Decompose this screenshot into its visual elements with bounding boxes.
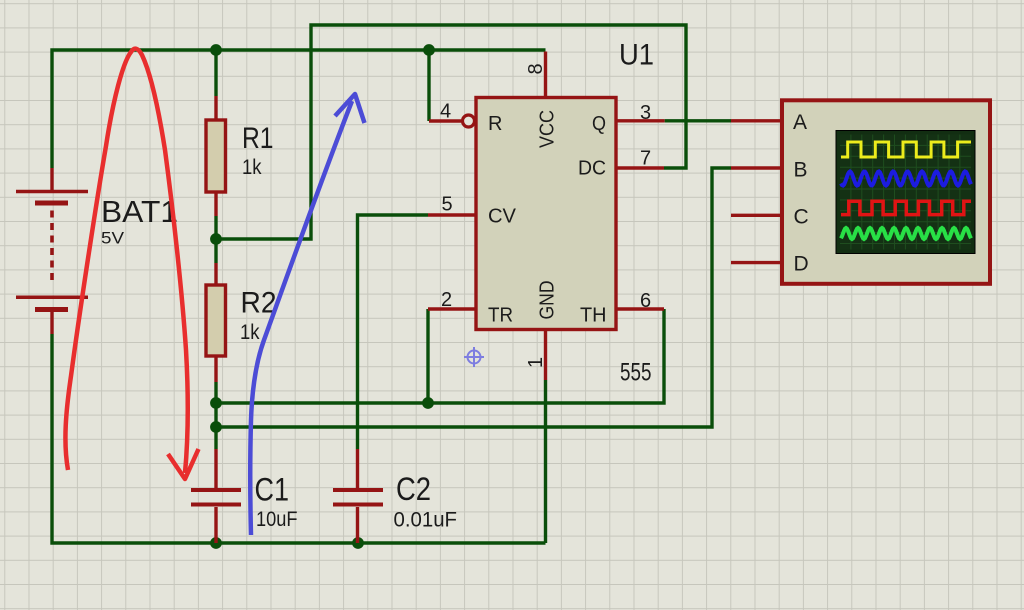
scope B stub	[731, 166, 781, 169]
wire: C1 vertical link between wire1 and plate	[214, 403, 217, 449]
svg-text:B: B	[794, 159, 808, 182]
resistor R1	[214, 96, 217, 216]
svg-text:DC: DC	[578, 158, 606, 180]
pin 4 R stub	[429, 119, 461, 122]
pin 5 CV stub	[428, 213, 476, 216]
pin 3 Q stub	[617, 119, 665, 122]
svg-text:0.01uF: 0.01uF	[394, 509, 458, 532]
annotation red curve	[65, 49, 187, 473]
svg-text:VCC: VCC	[537, 110, 559, 148]
oscilloscope body	[782, 100, 990, 283]
annotation blue arrowhead	[335, 94, 365, 123]
svg-text:3: 3	[640, 102, 651, 124]
svg-text:TH: TH	[580, 304, 607, 326]
scope D stub	[731, 261, 781, 264]
waveform channel C red square	[841, 201, 971, 214]
annotation red arrowhead	[168, 449, 199, 479]
svg-text:4: 4	[440, 101, 451, 123]
svg-text:A: A	[793, 111, 807, 134]
annotation blue curve	[250, 101, 352, 535]
wire: Q to scope A	[665, 119, 731, 122]
svg-text:BAT1: BAT1	[101, 194, 178, 229]
svg-text:6: 6	[640, 290, 651, 312]
junction dot wire2 at C1	[210, 421, 222, 433]
svg-text:5: 5	[442, 194, 453, 216]
junction dot TR on wire1	[422, 397, 434, 409]
scope C stub	[731, 214, 781, 217]
waveform channel B blue sine	[841, 172, 971, 186]
pin 4 inversion bubble	[463, 115, 475, 127]
node marker crosshair	[464, 347, 484, 367]
waveform channel A yellow square	[841, 142, 971, 157]
svg-text:TR: TR	[488, 304, 513, 326]
junction dot bottom rail at C1	[210, 537, 222, 549]
svg-text:CV: CV	[488, 206, 517, 228]
scope screen grid	[840, 135, 971, 250]
svg-text:R1: R1	[242, 122, 274, 155]
wire: R1 bottom lead green	[214, 216, 217, 239]
svg-text:8: 8	[525, 63, 547, 74]
pin 8 VCC stub	[544, 52, 547, 98]
scope screen frame	[836, 131, 975, 254]
pin 1 GND stub	[544, 330, 547, 380]
svg-text:1k: 1k	[240, 321, 260, 344]
wire: VCC top rail from battery to pin8 corner	[52, 50, 546, 168]
svg-text:Q: Q	[592, 113, 606, 135]
svg-text:10uF: 10uF	[256, 508, 298, 531]
svg-text:555: 555	[620, 359, 652, 387]
resistor R2	[214, 263, 217, 382]
wire: pin1 GND lead green	[544, 380, 547, 543]
svg-text:2: 2	[441, 289, 452, 311]
svg-text:GND: GND	[537, 281, 559, 320]
junction dot wire1 at C1	[210, 397, 222, 409]
svg-text:C2: C2	[396, 471, 431, 507]
svg-text:R: R	[488, 113, 502, 135]
op-amp U1 555 timer body	[476, 98, 616, 330]
junction dot on top rail at pin4 branch	[423, 44, 435, 56]
junction dot on top rail at R1	[210, 44, 222, 56]
waveform channel D green sine	[841, 228, 971, 239]
capacitor C1	[191, 449, 241, 543]
svg-text:U1: U1	[619, 39, 654, 72]
junction dot node A	[210, 233, 222, 245]
wire: pin4 branch down from top rail	[427, 50, 430, 121]
pin 7 DC stub	[617, 166, 664, 169]
wire: R1 top lead green	[214, 50, 217, 96]
pin 6 TH stub	[617, 307, 664, 310]
svg-text:D: D	[794, 253, 809, 276]
svg-text:1: 1	[525, 357, 547, 368]
svg-text:5V: 5V	[101, 229, 125, 248]
scope A stub	[731, 119, 781, 122]
wire: CV net from pin5 corner down to C2	[358, 215, 429, 449]
wire: C1 to scope B (wire2)	[216, 168, 731, 427]
battery BAT1	[16, 168, 88, 334]
junction dot bottom rail at C2	[352, 537, 364, 549]
scope screen inner	[840, 135, 971, 250]
wire: TR branch vertical	[426, 309, 429, 403]
wire: ground bottom rail	[52, 334, 546, 543]
svg-text:C: C	[794, 206, 809, 229]
pin 2 TR stub	[428, 307, 476, 310]
capacitor C2	[333, 449, 383, 543]
wire: TR/TH/C1 net (wire1)	[216, 309, 664, 403]
wire: node A (R1-R2 junction) to top loop to DC pin7	[216, 25, 686, 239]
svg-text:C1: C1	[255, 472, 290, 508]
svg-text:7: 7	[640, 147, 651, 169]
wire: R2 bottom lead green	[214, 382, 217, 403]
svg-text:1k: 1k	[242, 156, 262, 179]
wire: R2 top lead green	[214, 239, 217, 263]
